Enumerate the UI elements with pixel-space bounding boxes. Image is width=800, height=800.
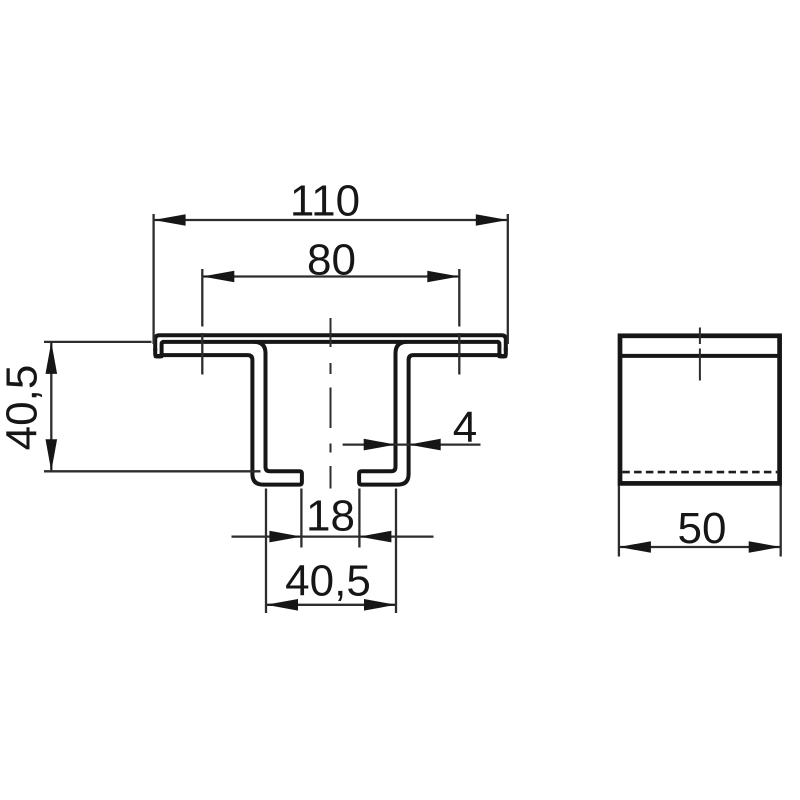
svg-text:50: 50 bbox=[678, 504, 727, 553]
svg-text:40,5: 40,5 bbox=[0, 365, 47, 451]
svg-text:40,5: 40,5 bbox=[285, 557, 371, 606]
svg-text:110: 110 bbox=[290, 177, 360, 226]
svg-text:80: 80 bbox=[307, 236, 356, 285]
svg-text:4: 4 bbox=[453, 403, 477, 452]
svg-text:18: 18 bbox=[306, 492, 355, 541]
